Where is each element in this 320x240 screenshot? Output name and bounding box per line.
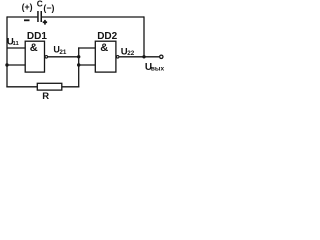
- wire bottom right (resistor R to feedback vertical): [62, 86, 80, 88]
- svg-text:22: 22: [127, 50, 135, 57]
- wire right feedback vertical (to capacitor top wire): [143, 16, 145, 56]
- wire DD2 input 2 stub: [78, 64, 95, 66]
- junction node U21 to DD2 input 2: [77, 63, 80, 66]
- wire top horizontal left (node U11 to capacitor): [7, 16, 37, 18]
- output terminal circle: [160, 55, 163, 58]
- wire DD1 input 1: [7, 47, 26, 49]
- gate DD2 box: [95, 41, 116, 72]
- svg-text:11: 11: [13, 41, 20, 47]
- capacitor polarity minus mark: [24, 19, 30, 21]
- resistor R body: [37, 83, 62, 90]
- svg-text:&: &: [100, 42, 108, 54]
- svg-text:R: R: [42, 91, 49, 101]
- gate DD2 inversion bubble: [116, 56, 119, 59]
- junction node rail to DD1 input 2: [5, 63, 8, 66]
- svg-text:DD2: DD2: [97, 31, 117, 42]
- wire DD2 input 1 stub: [78, 47, 95, 49]
- svg-text:(−): (−): [43, 3, 54, 13]
- gate DD1 inversion bubble: [45, 56, 48, 59]
- junction node U22 feedback: [142, 55, 145, 58]
- wire bottom left (rail to resistor R): [6, 86, 37, 88]
- wire top horizontal right (capacitor to right feedback corner): [42, 16, 144, 18]
- svg-text:вых: вых: [151, 65, 165, 72]
- svg-text:21: 21: [59, 49, 67, 56]
- svg-text:(+): (+): [22, 2, 33, 12]
- capacitor C left plate: [37, 11, 39, 22]
- wire DD2 output to terminal: [119, 56, 159, 58]
- svg-text:DD1: DD1: [27, 31, 47, 42]
- capacitor C right plate: [41, 11, 43, 22]
- wire DD1 output to junction U21: [48, 56, 79, 58]
- gate DD1 box: [25, 41, 44, 72]
- svg-text:C: C: [37, 0, 43, 8]
- wire DD1 input 2: [7, 64, 26, 66]
- svg-text:&: &: [30, 42, 38, 54]
- capacitor polarity plus mark: [43, 20, 47, 25]
- wire left rail vertical (node U11): [6, 16, 8, 87]
- junction node U21: [77, 55, 80, 58]
- wire feedback vertical (node U21 down to R): [78, 47, 80, 87]
